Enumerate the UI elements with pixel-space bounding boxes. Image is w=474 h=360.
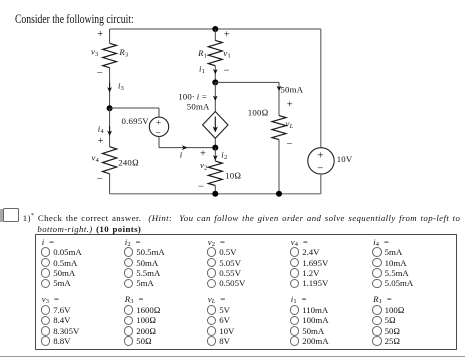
node below diamond <box>212 145 218 151</box>
resistor R1 <box>208 40 222 65</box>
question text <box>37 211 474 234</box>
svg-text:−: − <box>317 162 323 174</box>
node top (R1 branch) <box>212 26 218 32</box>
svg-text:10V: 10V <box>337 154 353 164</box>
svg-text:10Ω: 10Ω <box>225 170 241 180</box>
svg-text:i: i <box>180 149 183 159</box>
svg-text:−: − <box>224 66 230 77</box>
voltage source 10V <box>308 148 334 174</box>
node bottom center <box>212 191 218 197</box>
svg-text:+: + <box>98 136 104 147</box>
svg-text:50mA: 50mA <box>187 102 210 112</box>
dependent current source diamond <box>203 112 228 139</box>
svg-text:v3: v3 <box>91 47 98 59</box>
wire left mid <box>109 108 111 147</box>
resistor 10ohm <box>208 161 222 185</box>
svg-text:−: − <box>198 181 204 192</box>
wire node-left to vsource <box>110 107 159 109</box>
wire vL branch top, current arrow 50mA <box>278 82 280 115</box>
svg-text:100· i =: 100· i = <box>178 91 207 101</box>
wire diamond to node <box>214 138 216 147</box>
wire R1 bottom lead with current arrow i1 <box>214 66 216 83</box>
grey bottom rule <box>0 356 465 357</box>
svg-text:+: + <box>224 29 230 40</box>
svg-text:R1: R1 <box>197 48 207 60</box>
svg-text:i2: i2 <box>221 150 227 162</box>
wire right vertical bottom <box>320 174 322 194</box>
wire node below R1 to vL branch <box>215 81 279 83</box>
wire left below R3 <box>109 68 111 109</box>
wire left vertical (R3 branch) <box>109 29 111 43</box>
wire right vertical top <box>320 29 322 148</box>
svg-text:−: − <box>156 129 162 139</box>
svg-text:+: + <box>317 150 323 162</box>
svg-text:v4: v4 <box>92 153 100 165</box>
svg-text:v2: v2 <box>200 160 207 172</box>
wire below vsource <box>158 137 160 148</box>
current arrow into diamond <box>213 96 218 101</box>
svg-text:+: + <box>156 119 162 129</box>
svg-text:50mA: 50mA <box>280 85 303 95</box>
wire left bottom <box>109 174 111 194</box>
wire node to dependent source <box>214 82 216 111</box>
wire top <box>110 28 321 30</box>
svg-text:R3: R3 <box>118 47 128 59</box>
svg-text:+: + <box>97 29 103 40</box>
svg-text:−: − <box>97 174 103 185</box>
wire node to 10ohm, current arrow i2 <box>214 148 216 162</box>
checkbox <box>3 208 20 222</box>
svg-text:+: + <box>200 148 206 159</box>
svg-text:vL: vL <box>286 118 294 130</box>
current arrow i <box>182 145 188 150</box>
svg-text:i4: i4 <box>98 123 105 135</box>
svg-text:+: + <box>287 100 293 111</box>
resistor 100ohm (vL) <box>272 116 286 140</box>
svg-text:0.695V: 0.695V <box>122 116 150 126</box>
wire R1 top lead <box>214 29 216 40</box>
circuit schematic <box>0 0 474 232</box>
svg-text:i3: i3 <box>118 80 124 92</box>
wire 10ohm to bottom <box>214 186 216 194</box>
svg-text:−: − <box>287 139 293 150</box>
voltage source 0.695V <box>149 117 168 136</box>
svg-text:−: − <box>97 68 103 79</box>
wire bottom <box>110 193 321 195</box>
node below R1 <box>212 79 218 85</box>
node left junction <box>107 105 113 111</box>
svg-text:v1: v1 <box>223 48 230 60</box>
svg-text:i1: i1 <box>199 63 205 75</box>
title text <box>15 13 134 26</box>
svg-text:240Ω: 240Ω <box>118 157 139 167</box>
resistor R3 <box>103 43 117 67</box>
current arrow i4 <box>109 126 111 132</box>
answer table <box>35 234 457 350</box>
wire vL branch bottom <box>278 140 280 194</box>
grey partial element at left edge <box>0 209 3 222</box>
current arrow i3 <box>109 83 111 89</box>
svg-text:100Ω: 100Ω <box>248 107 269 117</box>
diamond inner arrow <box>214 117 216 129</box>
resistor 240ohm <box>103 147 117 174</box>
node bottom right <box>276 191 282 197</box>
